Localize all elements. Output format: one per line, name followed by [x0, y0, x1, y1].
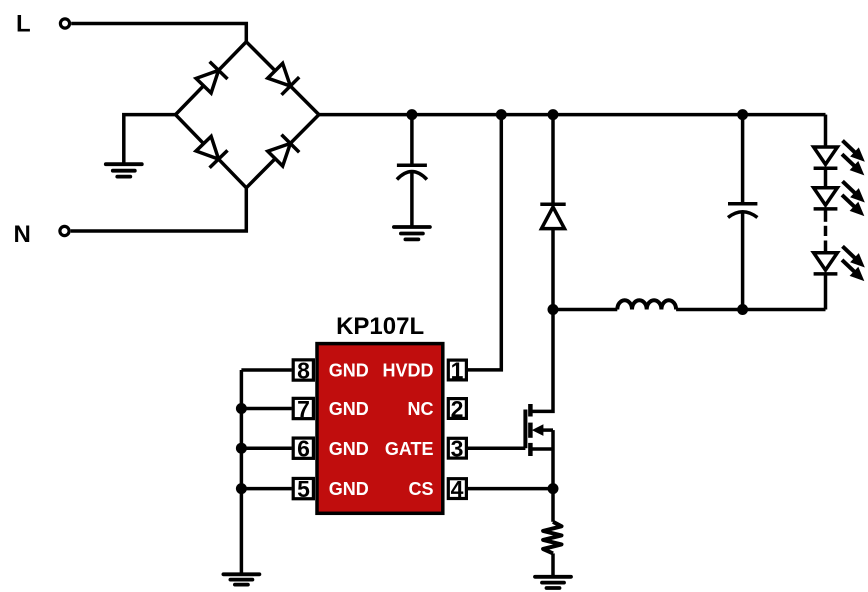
- wire pin3 GATE to MOSFET gate: [468, 446, 525, 450]
- node junction dot (switch node): [548, 304, 559, 315]
- pin 8 box: [293, 357, 313, 383]
- pin 5 box: [293, 476, 313, 502]
- diode D1 (freewheel, cathode up): [540, 204, 565, 228]
- svg-text:HVDD: HVDD: [382, 361, 433, 381]
- wire switch node to inductor: [553, 308, 617, 312]
- LED D4 arrows: [838, 242, 868, 286]
- capacitor C1 (bulk cap): [397, 115, 427, 227]
- terminal L: [60, 19, 69, 28]
- svg-text:L: L: [16, 11, 31, 38]
- wire bus corner down to LED string: [824, 115, 828, 149]
- bridge diamond wires: [176, 42, 319, 188]
- node junction dot (C1 tap): [406, 109, 417, 120]
- wire source node to resistor R1: [551, 489, 555, 522]
- wire switch node to MOSFET drain: [530, 310, 553, 412]
- svg-text:6: 6: [297, 436, 310, 462]
- wire main bus (rectified rail): [319, 113, 826, 117]
- ground (bridge AC ground): [106, 164, 142, 176]
- wire bridge left vertex to ground: [124, 115, 176, 165]
- svg-text:GND: GND: [329, 479, 369, 499]
- node junction dot (CS node): [548, 483, 559, 494]
- ground (C1 ground): [394, 227, 430, 239]
- wire pin5 to gnd bus: [241, 487, 291, 491]
- wire diode D1 to switch node: [551, 229, 555, 310]
- svg-text:4: 4: [451, 476, 464, 502]
- diode BR1 (bridge top-left): [195, 62, 228, 95]
- svg-text:GND: GND: [329, 399, 369, 419]
- LED D3 arrows: [838, 177, 868, 221]
- wire LED D4 to return bus: [824, 274, 828, 310]
- svg-text:N: N: [14, 221, 31, 248]
- pin 7 box: [293, 396, 313, 422]
- diode BR2 (bridge top-right): [266, 62, 299, 95]
- inductor L1: [617, 300, 676, 309]
- svg-text:5: 5: [297, 476, 310, 502]
- wire resistor R1 to ground: [551, 553, 555, 576]
- LED D2: [814, 147, 838, 168]
- resistor R1 (current sense): [543, 522, 561, 554]
- wire LED D2 to LED D3: [824, 168, 828, 189]
- svg-text:1: 1: [451, 357, 464, 383]
- wire gnd bus vertical: [240, 370, 244, 574]
- pin 3 box: [448, 436, 466, 462]
- wire from N to bridge bottom: [71, 188, 247, 231]
- diode BR4 (bridge bottom-right): [266, 135, 299, 168]
- diode BR3 (bridge bottom-left): [195, 135, 228, 168]
- LED D4: [814, 253, 838, 274]
- pin 1 box: [448, 357, 466, 383]
- wire pin4 CS to source node: [468, 487, 553, 491]
- wire pin7 to gnd bus: [241, 407, 291, 411]
- pin 4 box: [448, 476, 466, 502]
- svg-text:GND: GND: [329, 361, 369, 381]
- LED D3: [814, 188, 838, 209]
- svg-text:CS: CS: [408, 479, 433, 499]
- LED D2 arrows: [838, 136, 868, 180]
- transistor Q1 (power MOSFET): [525, 404, 553, 489]
- ground (IC GND pins): [223, 574, 259, 584]
- terminal N: [60, 226, 69, 235]
- svg-text:8: 8: [297, 357, 310, 383]
- node junction dot (HVDD tap): [496, 109, 507, 120]
- node junction dot (C2 top tap): [737, 109, 748, 120]
- wire dashed (more LEDs): [824, 209, 828, 253]
- node junction dot (pin6 gnd): [236, 443, 247, 454]
- svg-text:NC: NC: [408, 399, 434, 419]
- pin 6 box: [293, 436, 313, 462]
- node junction dot (C2 bottom tap): [737, 304, 748, 315]
- svg-text:2: 2: [451, 396, 464, 422]
- node junction dot (pin5 gnd): [236, 483, 247, 494]
- svg-text:7: 7: [297, 396, 310, 422]
- wire HVDD pin1 to bus: [468, 115, 501, 370]
- capacitor C2 (output cap): [728, 115, 757, 310]
- node junction dot (pin7 gnd): [236, 403, 247, 414]
- wire bus to diode D1: [551, 115, 555, 205]
- svg-text:3: 3: [451, 436, 464, 462]
- svg-text:GND: GND: [329, 439, 369, 459]
- op IC U1 KP107L body: [317, 344, 443, 514]
- ground (R1 ground): [535, 577, 571, 588]
- wire pin8 to gnd bus: [241, 368, 291, 372]
- wire inductor to LED return: [676, 308, 825, 312]
- node junction dot (D1 tap): [548, 109, 559, 120]
- wire pin6 to gnd bus: [241, 446, 291, 450]
- wire from L to bridge top: [71, 24, 246, 42]
- pin 2 box: [448, 396, 466, 422]
- svg-text:KP107L: KP107L: [336, 313, 424, 340]
- svg-text:GATE: GATE: [385, 439, 434, 459]
